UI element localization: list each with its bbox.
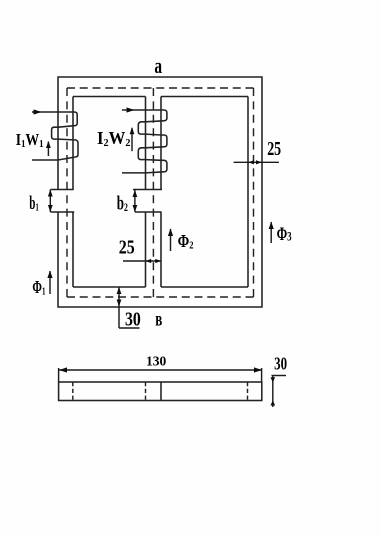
svg-text:30: 30: [125, 308, 141, 330]
svg-text:I1W1: I1W1: [16, 131, 44, 150]
svg-text:130: 130: [146, 353, 167, 368]
svg-text:25: 25: [119, 236, 135, 258]
svg-text:Φ1: Φ1: [32, 279, 45, 298]
svg-text:b1: b1: [29, 193, 39, 214]
svg-text:30: 30: [274, 354, 287, 374]
svg-text:I2W2: I2W2: [97, 128, 130, 148]
svg-text:в: в: [155, 308, 162, 331]
svg-text:b2: b2: [117, 192, 128, 215]
svg-text:Φ2: Φ2: [178, 233, 194, 252]
svg-text:Φ3: Φ3: [277, 225, 292, 245]
svg-text:a: a: [154, 55, 162, 79]
svg-text:25: 25: [267, 136, 281, 159]
